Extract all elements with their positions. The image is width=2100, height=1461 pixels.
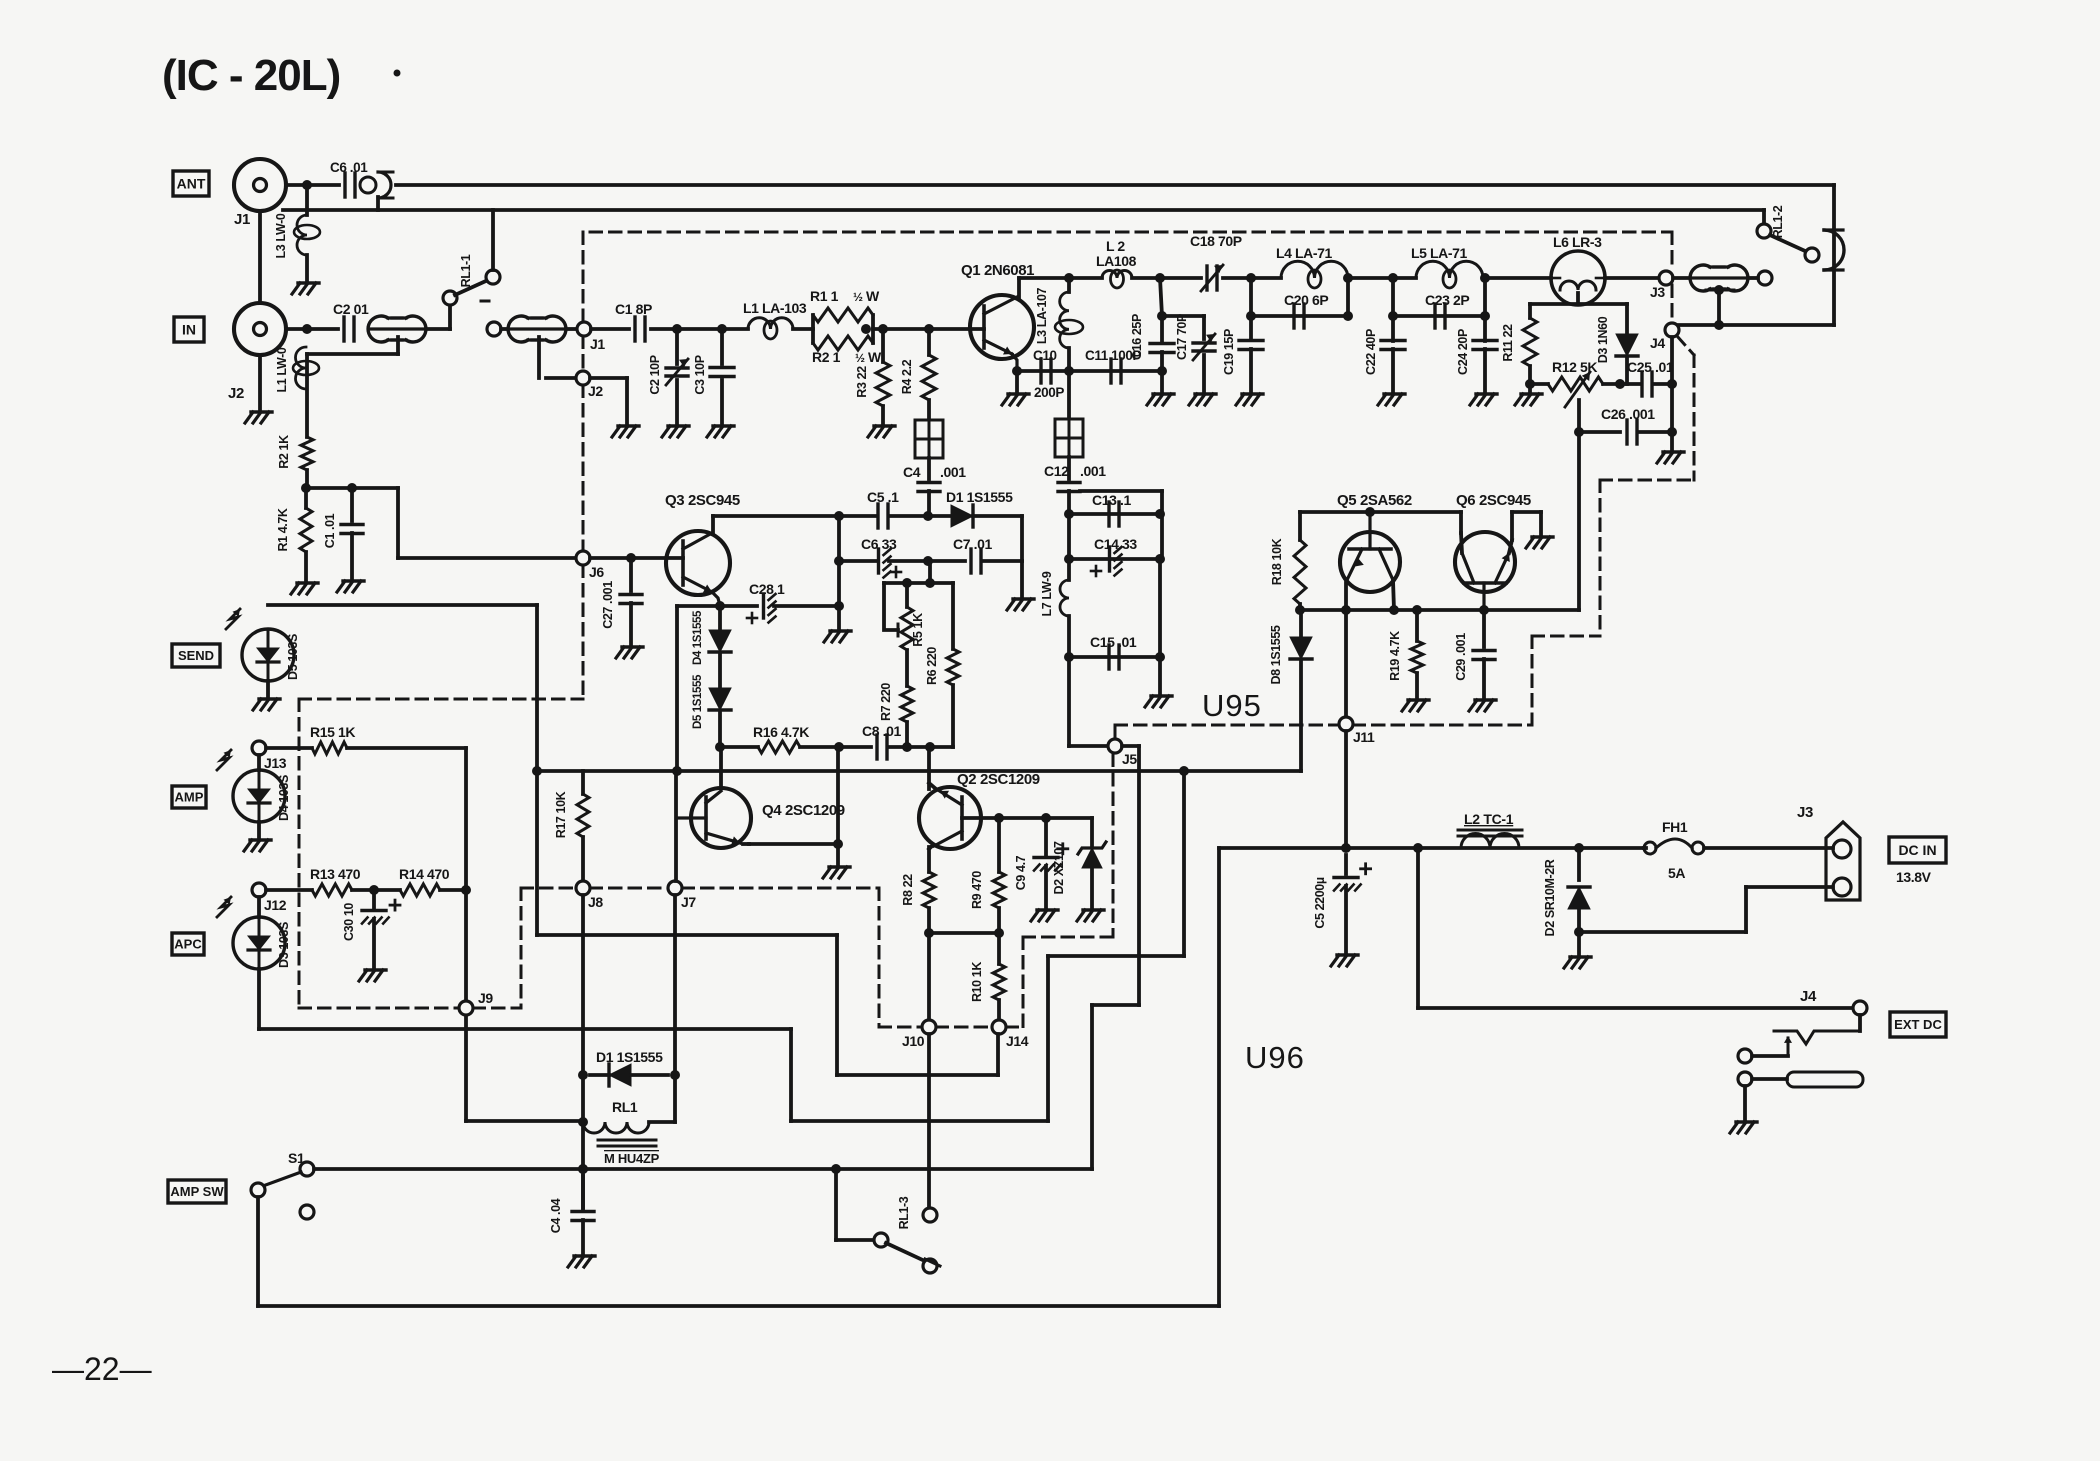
ground J2conn <box>618 424 639 427</box>
ground C1 <box>343 579 364 582</box>
resistor R17 10K <box>581 771 585 794</box>
capacitor C23 2P <box>1393 314 1485 318</box>
svg-text:.001: .001 <box>1080 463 1106 479</box>
svg-text:L1 LW-0: L1 LW-0 <box>275 347 289 392</box>
transistor Q1 2N6081 <box>970 295 1034 359</box>
transistor Q5 2SA562 <box>1340 532 1400 592</box>
svg-text:½: ½ <box>855 351 865 365</box>
wire J11 vertical <box>1344 610 1348 717</box>
svg-text:Q2 2SC1209: Q2 2SC1209 <box>957 771 1040 788</box>
wire C12 bypass rail <box>1080 489 1162 493</box>
svg-text:C27 .001: C27 .001 <box>601 581 615 629</box>
resistor R1 parallel R2 <box>811 315 815 343</box>
svg-text:J9: J9 <box>478 990 493 1006</box>
svg-text:J4: J4 <box>1650 335 1665 351</box>
svg-text:R2 1K: R2 1K <box>277 435 291 469</box>
resistor R7 220 <box>905 650 909 686</box>
connector J1 (ANT BNC) <box>234 159 286 211</box>
ground R3 <box>874 424 895 427</box>
wire J8 vertical <box>581 895 585 1208</box>
wire C5 C6 C28 vertical <box>837 516 841 629</box>
svg-text:C17 70P: C17 70P <box>1175 314 1189 360</box>
capacitor C9 4.7 <box>1044 818 1048 855</box>
ground J4 branch <box>1663 450 1684 453</box>
wire J1conn to C1 <box>591 327 629 331</box>
svg-text:J8: J8 <box>588 894 603 910</box>
svg-text:J3: J3 <box>1650 284 1665 300</box>
feedthrough C <box>915 420 943 458</box>
ground R11 <box>1525 379 1535 389</box>
wire J4 ext row <box>1416 848 1420 1008</box>
svg-text:J14: J14 <box>1006 1033 1029 1049</box>
wire L4-L5 <box>1348 276 1416 280</box>
svg-text:C12: C12 <box>1044 463 1069 479</box>
capacitor C15 .01 row <box>1069 655 1160 659</box>
svg-text:EXT DC: EXT DC <box>1894 1017 1942 1032</box>
wire J5 to S1 route <box>1122 744 1139 748</box>
wire J2 to C2 <box>286 327 338 331</box>
diode D3 1N60 <box>1576 293 1580 304</box>
bracket R5R6 <box>884 581 953 585</box>
row C6 C7 <box>839 559 877 563</box>
svg-text:13.8V: 13.8V <box>1896 869 1932 885</box>
relay contact RL1-2 <box>1762 210 1766 224</box>
resistor R2 1K <box>305 354 309 437</box>
svg-text:J2: J2 <box>228 385 244 402</box>
svg-text:D5 103S: D5 103S <box>286 634 300 680</box>
capacitor C11 100P <box>1109 359 1112 383</box>
svg-text:J13: J13 <box>264 755 287 771</box>
wire L1 to R1R2 <box>793 327 813 331</box>
svg-text:R19 4.7K: R19 4.7K <box>1388 631 1402 681</box>
wire Q3 emitter row <box>715 601 725 611</box>
capacitor C7 .01 <box>969 549 972 573</box>
dashed J10 J14 edge <box>878 888 881 1027</box>
capacitor C3 10P <box>720 329 724 364</box>
svg-text:C30 10: C30 10 <box>342 903 356 941</box>
wire Q1 collector row <box>1019 276 1102 280</box>
connector J11 <box>1339 717 1353 731</box>
svg-text:D4 1S1555: D4 1S1555 <box>692 610 704 665</box>
wire J4 row <box>1679 323 1834 327</box>
svg-text:Q3 2SC945: Q3 2SC945 <box>665 492 740 509</box>
svg-text:R6 220: R6 220 <box>925 647 939 685</box>
svg-text:W: W <box>866 288 880 304</box>
svg-text:C1 .01: C1 .01 <box>323 513 337 548</box>
svg-text:C11 100P: C11 100P <box>1085 348 1141 363</box>
coax plug pair 2 <box>487 322 501 336</box>
ground D4 LED <box>257 822 261 838</box>
diode D5 LED 103S <box>242 629 294 681</box>
svg-text:R18 10K: R18 10K <box>1270 538 1284 585</box>
svg-text:C5 2200µ: C5 2200µ <box>1313 877 1327 928</box>
svg-text:D3 103S: D3 103S <box>277 922 291 968</box>
svg-text:C6 33: C6 33 <box>861 536 897 552</box>
ground R19 <box>1408 698 1429 701</box>
coil L3 LW-0 <box>305 185 309 215</box>
svg-text:R7 220: R7 220 <box>879 683 893 721</box>
svg-text:C4: C4 <box>903 464 921 480</box>
ground R1 <box>297 581 318 584</box>
svg-text:D5 1S1555: D5 1S1555 <box>692 674 704 729</box>
ground D2 <box>1570 955 1591 958</box>
capacitor C4 .001 <box>927 458 931 479</box>
svg-text:R4 2.2: R4 2.2 <box>900 359 914 394</box>
capacitor C19 15P <box>1239 339 1263 342</box>
svg-text:200P: 200P <box>1034 385 1064 400</box>
plug shield to L1 <box>396 337 400 354</box>
wire Q3 emitter to bus <box>675 606 679 771</box>
connector J2 (IN BNC) <box>234 303 286 355</box>
wire APC route <box>1046 956 1050 1121</box>
dashed U95 left edge <box>582 232 585 322</box>
resistor R19 4.7K <box>1415 610 1419 641</box>
wire C7 branch <box>1020 516 1024 561</box>
svg-text:Q6 2SC945: Q6 2SC945 <box>1456 492 1531 509</box>
diode D3 LED 103S <box>257 897 261 917</box>
svg-text:C4 .04: C4 .04 <box>549 1198 563 1233</box>
wire to RL1-1 <box>428 327 450 331</box>
capacitor C30 10 <box>372 890 376 908</box>
svg-text:C19 15P: C19 15P <box>1222 329 1236 375</box>
resistor R16 4.7K <box>758 741 800 753</box>
svg-text:C9 4.7: C9 4.7 <box>1014 855 1028 890</box>
wire J2conn ground <box>590 376 627 380</box>
trimmer R5 1K <box>905 583 909 607</box>
svg-text:½: ½ <box>853 290 863 304</box>
resistor R6 220 <box>951 583 955 649</box>
svg-text:W: W <box>868 349 882 365</box>
svg-text:5A: 5A <box>1668 865 1685 881</box>
wire J10 to RL1-3 <box>927 1034 931 1208</box>
ink speck near title <box>394 70 401 77</box>
svg-text:Q4 2SC1209: Q4 2SC1209 <box>762 802 845 819</box>
svg-text:LA108: LA108 <box>1096 253 1137 269</box>
resistor R10 1K <box>997 933 1001 964</box>
svg-text:DC IN: DC IN <box>1898 842 1936 858</box>
ANT label box <box>173 171 209 196</box>
EXT DC jack <box>1858 1015 1862 1031</box>
wire RL1-3 link <box>834 1169 838 1240</box>
ground C19 <box>1242 392 1263 395</box>
svg-text:D2 SR10M-2R: D2 SR10M-2R <box>1543 859 1557 936</box>
inductor L5 LA-71 <box>1416 261 1483 278</box>
svg-text:C23 2P: C23 2P <box>1425 292 1469 308</box>
capacitor C5 2200u <box>1344 855 1348 874</box>
capacitor C17 70P trimmer <box>1162 314 1204 318</box>
wire Q2 collector <box>927 747 931 789</box>
capacitor C14 33 row <box>1069 557 1160 561</box>
svg-text:L5 LA-71: L5 LA-71 <box>1411 245 1468 261</box>
svg-text:R13 470: R13 470 <box>310 866 361 882</box>
svg-text:C20 6P: C20 6P <box>1284 292 1328 308</box>
ground D5 LED <box>266 681 270 697</box>
svg-text:R9 470: R9 470 <box>970 871 984 909</box>
capacitor C10 200P <box>1039 359 1042 383</box>
svg-text:C2 10P: C2 10P <box>648 355 662 394</box>
svg-text:ANT: ANT <box>177 176 206 192</box>
transistor Q6 2SC945 <box>1455 532 1515 592</box>
connector J7 <box>668 881 682 895</box>
svg-text:D8 1S1555: D8 1S1555 <box>1269 625 1283 684</box>
wire R16 C8 row <box>720 745 758 749</box>
svg-text:C14 33: C14 33 <box>1094 536 1137 552</box>
capacitor C6 33 <box>877 549 880 573</box>
wire Q4 emitter ground <box>833 839 843 849</box>
fuse FH1 <box>1644 846 1646 850</box>
svg-text:L7 LW-9: L7 LW-9 <box>1040 571 1054 616</box>
inductor L2 TC-1 <box>1461 834 1519 849</box>
ground C3 <box>713 424 734 427</box>
dashed U95 top edge <box>590 231 1672 234</box>
resistor R14 470 <box>400 884 440 896</box>
svg-text:C18 70P: C18 70P <box>1190 233 1242 249</box>
capacitor C2 10P trimmer <box>675 329 679 364</box>
svg-text:J1: J1 <box>590 336 605 352</box>
svg-text:R3 22: R3 22 <box>855 366 869 398</box>
svg-text:L6 LR-3: L6 LR-3 <box>1553 234 1602 250</box>
ground C13C14C15 rail <box>1158 559 1162 657</box>
wire Q2 base row <box>962 816 1092 820</box>
svg-text:Q5 2SA562: Q5 2SA562 <box>1337 492 1412 509</box>
coax plug ANT <box>360 177 376 193</box>
wire R12 tap <box>1577 400 1581 610</box>
svg-text:J4: J4 <box>1800 988 1817 1005</box>
svg-text:R2 1: R2 1 <box>812 349 841 365</box>
AMP SW label box <box>168 1180 226 1203</box>
capacitor C24 20P <box>1483 278 1487 341</box>
plug2 shield to J2 conn <box>537 337 541 378</box>
capacitor C5 .1 <box>876 504 879 528</box>
capacitor C18 70P trimmer <box>1205 266 1208 290</box>
svg-text:R12 5K: R12 5K <box>1552 359 1597 375</box>
dashed U95 bottom edge <box>1115 724 1339 727</box>
svg-text:C1 8P: C1 8P <box>615 301 652 317</box>
resistor R4 2.2 <box>927 329 931 355</box>
wire to J6 <box>396 488 400 558</box>
diode D4 1S1555 <box>718 606 722 629</box>
dashed J3 J4 edge <box>1671 232 1674 271</box>
svg-text:R1 1: R1 1 <box>810 288 839 304</box>
wire R15 drop <box>464 748 468 890</box>
capacitor C13 .1 row <box>1069 512 1160 516</box>
svg-text:R5 1K: R5 1K <box>911 613 925 647</box>
svg-text:D1 1S1555: D1 1S1555 <box>946 489 1013 505</box>
resistor R9 470 <box>997 818 1001 872</box>
coil L1 LW-0 <box>295 347 306 389</box>
svg-text:RL1-3: RL1-3 <box>897 1196 911 1229</box>
connector J10 <box>922 1020 936 1034</box>
svg-text:C13 .1: C13 .1 <box>1092 492 1131 508</box>
ground C16 <box>1160 371 1164 392</box>
svg-text:C22 40P: C22 40P <box>1364 329 1378 375</box>
svg-text:C26 .001: C26 .001 <box>1601 406 1655 422</box>
resistor R11 22 <box>1528 304 1532 318</box>
svg-text:R15 1K: R15 1K <box>310 724 355 740</box>
svg-text:L1 LA-103: L1 LA-103 <box>743 300 807 316</box>
svg-text:C24 20P: C24 20P <box>1456 329 1470 375</box>
coax plug RL1-2 <box>1824 230 1844 270</box>
AMP label box <box>172 786 206 808</box>
svg-text:C8 .01: C8 .01 <box>862 723 901 739</box>
connector J1 (unit) <box>577 322 591 336</box>
transistor Q3 2SC945 <box>666 531 730 595</box>
ground C24 <box>1476 392 1497 395</box>
svg-text:R14 470: R14 470 <box>399 866 450 882</box>
connector J13 <box>252 741 266 755</box>
capacitor C6 .01 <box>343 173 346 197</box>
wire U96 vertical <box>1217 848 1221 1306</box>
diode D8 1S1555 <box>1299 610 1303 636</box>
diode D2 SR10N-2R <box>1577 848 1581 880</box>
svg-text:FH1: FH1 <box>1662 819 1688 835</box>
inductor L2 LA108 <box>1102 271 1132 278</box>
inductor L1 LA-103 <box>748 318 793 329</box>
svg-text:L 2: L 2 <box>1106 238 1125 254</box>
coax plug pair IN <box>368 316 388 342</box>
DC IN label box <box>1889 837 1946 863</box>
svg-text:J6: J6 <box>589 564 604 580</box>
capacitor C22 40P <box>1391 278 1395 341</box>
capacitor C8 .01 <box>875 735 878 759</box>
wire DC row <box>1219 846 1644 850</box>
connector J4 <box>1665 323 1679 337</box>
wire R2 node row <box>306 486 398 490</box>
wire J11 to DC row <box>1344 731 1348 848</box>
wire L7 to J5 <box>1067 657 1071 746</box>
resistor R3 22 <box>881 329 885 362</box>
svg-text:C28 1: C28 1 <box>749 581 785 597</box>
svg-text:AMP: AMP <box>175 790 204 805</box>
svg-text:M HU4ZP: M HU4ZP <box>604 1151 660 1166</box>
svg-text:J3: J3 <box>1797 804 1813 821</box>
ground C29 <box>1475 698 1496 701</box>
capacitor C26 .001 <box>1579 430 1620 434</box>
capacitor C16 25P <box>1160 278 1162 316</box>
svg-text:L2 TC-1: L2 TC-1 <box>1464 811 1514 827</box>
plug shield J3 <box>1706 289 1734 292</box>
capacitor C29 .001 <box>1482 610 1486 647</box>
connector J2 (unit) <box>576 371 590 385</box>
svg-text:—22—: —22— <box>52 1351 152 1387</box>
wire Q5Q6 bottom row <box>1300 608 1579 612</box>
dashed U95 right steps <box>1531 636 1534 725</box>
wire ANT right vertical <box>1832 185 1836 325</box>
ground C22 <box>1384 392 1405 395</box>
diode D5 1S1555 <box>718 653 722 687</box>
APC label box <box>172 933 204 955</box>
IN label box <box>174 317 204 342</box>
svg-text:U96: U96 <box>1245 1040 1305 1075</box>
wire R8 R9 row <box>929 931 999 935</box>
svg-text:.001: .001 <box>940 464 966 480</box>
connector J14 <box>992 1020 1006 1034</box>
diode D1 1S1555 (relay) <box>590 1073 609 1077</box>
dashed notch left <box>299 698 583 701</box>
wire emitter row C10 C11 <box>1017 369 1162 373</box>
ground C7 <box>1020 561 1024 597</box>
svg-text:IN: IN <box>182 322 196 338</box>
capacitor C1 8P <box>633 317 636 341</box>
wire J6 to Q3 <box>590 556 683 560</box>
connector J4 ext <box>1853 1001 1867 1015</box>
svg-text:RL1-1: RL1-1 <box>459 254 473 287</box>
svg-text:R8 22: R8 22 <box>901 874 915 906</box>
transistor Q4 2SC1209 <box>691 788 751 848</box>
svg-text:C15 .01: C15 .01 <box>1090 634 1137 650</box>
capacitor C27 .001 <box>629 558 633 591</box>
wire ANT top line <box>396 183 1834 187</box>
capacitor C25 .01 <box>1640 372 1643 396</box>
ground J2 BNC <box>258 355 262 410</box>
svg-text:C7 .01: C7 .01 <box>953 536 992 552</box>
wire C1 to L1 <box>651 327 748 331</box>
svg-text:RL1: RL1 <box>612 1099 638 1115</box>
dashed right of J14 <box>1022 937 1025 1027</box>
wire D2 to J3 pin2 <box>1579 930 1746 934</box>
SEND route wire <box>268 603 537 607</box>
svg-text:L4 LA-71: L4 LA-71 <box>1276 245 1333 261</box>
svg-text:L3 LA-107: L3 LA-107 <box>1035 287 1049 344</box>
inductor L6 LR-3 <box>1551 251 1605 305</box>
ground C4 <box>574 1254 595 1257</box>
connector J9 <box>459 1001 473 1015</box>
svg-text:C25 .01: C25 .01 <box>1627 359 1674 375</box>
wire L5 to L6 <box>1483 276 1551 280</box>
ground L3 <box>298 281 319 284</box>
svg-text:J1: J1 <box>234 211 250 228</box>
ground C27 <box>622 645 643 648</box>
connector J8 <box>576 881 590 895</box>
wire Q6 emitter ground <box>1512 510 1541 514</box>
svg-text:C5 .1: C5 .1 <box>867 489 899 505</box>
ground C17 <box>1195 392 1216 395</box>
ground C2 <box>668 424 689 427</box>
svg-text:L3 LW-0: L3 LW-0 <box>274 213 288 258</box>
svg-text:R16 4.7K: R16 4.7K <box>753 724 809 740</box>
ground Q1 emitter <box>1015 371 1019 392</box>
capacitor C1 .01 <box>350 488 354 521</box>
resistor R13 470 <box>266 888 312 892</box>
wire Q5Q6 top rail <box>1300 510 1461 514</box>
svg-text:U95: U95 <box>1202 688 1262 723</box>
wire plug2 to J1 conn <box>567 327 577 331</box>
zener D2 XZ107 <box>1090 818 1094 845</box>
capacitor C4 .04 <box>581 1176 585 1208</box>
wire Q3 collector rail <box>713 514 839 518</box>
wire J7 vertical <box>674 771 678 881</box>
svg-text:J12: J12 <box>264 897 287 913</box>
bus wire <box>537 769 1301 773</box>
connector J12 <box>252 883 266 897</box>
svg-text:(IC - 20L): (IC - 20L) <box>162 51 340 100</box>
wire L6 to J3 <box>1605 276 1659 280</box>
dashed J9 edge <box>299 1007 459 1010</box>
resistor R18 10K <box>1298 512 1302 540</box>
SEND label box <box>172 644 220 667</box>
connector J3 <box>1659 271 1673 285</box>
coax plugs J3 <box>1690 265 1710 291</box>
wire J4 down <box>1670 337 1674 450</box>
wire J10 drop <box>927 933 931 1020</box>
ground Q4 <box>829 865 850 868</box>
inductor L4 LA-71 <box>1281 261 1348 278</box>
ground C28 rail <box>830 629 851 632</box>
svg-text:SEND: SEND <box>178 648 214 663</box>
resistor R12 5K variable <box>1530 382 1548 386</box>
wire J1 to C6 <box>286 183 339 187</box>
wire to C18 <box>1132 276 1201 280</box>
